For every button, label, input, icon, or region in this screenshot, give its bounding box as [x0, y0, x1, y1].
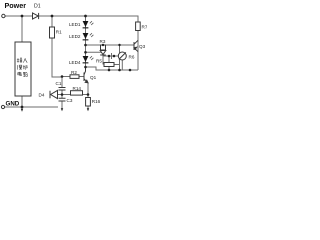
svg-text:R2: R2: [71, 70, 77, 75]
svg-text:LED2: LED2: [69, 34, 81, 39]
svg-text:Power: Power: [5, 1, 27, 10]
svg-text:R3: R3: [100, 39, 106, 44]
svg-text:R1: R1: [56, 30, 62, 35]
svg-text:LED1: LED1: [69, 22, 81, 27]
svg-text:C1: C1: [56, 81, 62, 86]
svg-text:R16: R16: [92, 99, 101, 104]
svg-text:D1: D1: [34, 4, 41, 10]
svg-text:R14: R14: [73, 86, 82, 91]
svg-text:D4: D4: [39, 93, 45, 98]
svg-text:Q3: Q3: [139, 44, 146, 49]
svg-text:C3: C3: [67, 98, 73, 103]
svg-text:R7: R7: [142, 25, 148, 30]
svg-text:R5: R5: [96, 59, 102, 64]
svg-text:LED4: LED4: [69, 60, 81, 65]
svg-text:R6: R6: [129, 55, 135, 60]
svg-text:Q1: Q1: [90, 75, 97, 80]
svg-text:GND: GND: [6, 100, 20, 107]
